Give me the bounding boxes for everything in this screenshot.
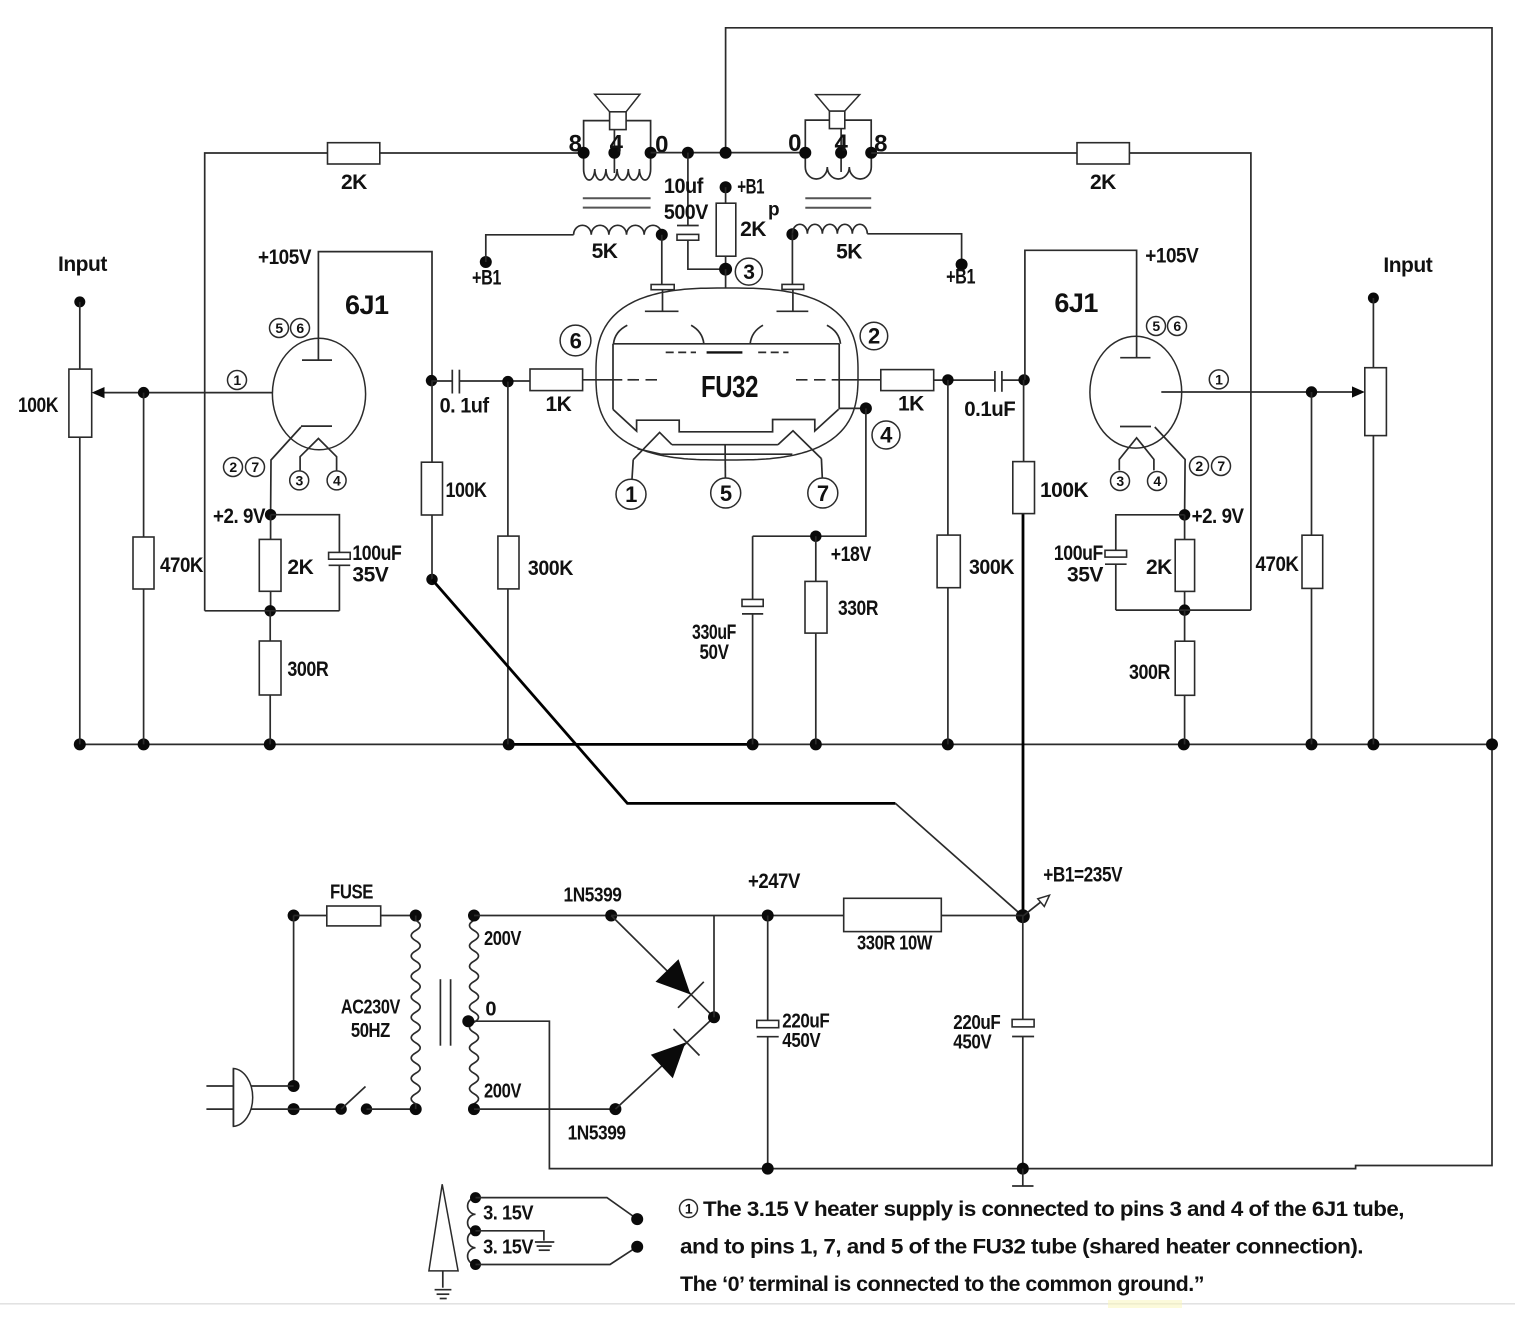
svg-text:3: 3 — [296, 472, 304, 488]
wire 100uF bottom lead left — [338, 565, 340, 611]
capacitor 220uF 450V first top plate — [757, 1020, 779, 1027]
node pot wiper arrowhead right — [1352, 386, 1365, 397]
svg-text:5: 5 — [275, 320, 283, 336]
node plug prong dot lower — [288, 1103, 300, 1115]
node rectifier output junction dot — [708, 1011, 720, 1023]
plug body — [233, 1069, 252, 1127]
resistor 300K right body — [937, 535, 960, 588]
tube FU32 heater line — [638, 449, 793, 454]
svg-text:1K: 1K — [898, 393, 924, 416]
tube 6J1 right envelope — [1090, 336, 1182, 448]
switch pole dot left — [335, 1103, 346, 1114]
svg-text:1N5399: 1N5399 — [564, 885, 622, 907]
diode D1 cathode bar — [678, 982, 704, 1008]
wire grid stub left unit — [583, 379, 623, 381]
svg-text:7: 7 — [251, 459, 259, 475]
wire main ground rail thick middle segment — [509, 743, 753, 746]
svg-text:+B1: +B1 — [472, 267, 502, 290]
diode D2 triangle — [651, 1043, 686, 1079]
capacitor 100uF 35V right bottom plate — [1105, 563, 1127, 565]
svg-text:100K: 100K — [1040, 479, 1089, 502]
wire 100K plate-load top lead right — [1023, 380, 1025, 462]
svg-text:2: 2 — [868, 324, 880, 349]
wire 100uF bottom lead right — [1115, 564, 1117, 610]
node primary bottom dot — [410, 1103, 422, 1115]
wire neutral to switch — [294, 1108, 342, 1110]
pin label 2 left 6J1 — [224, 458, 243, 477]
node 330R top junction dot — [810, 531, 821, 542]
tube FU32 right unit plate arc right — [827, 325, 841, 344]
capacitor 330uF 50V top plate — [742, 599, 763, 606]
resistor 2K cathode right body — [1175, 540, 1194, 592]
capacitor 10uf 500V bottom plate — [677, 234, 699, 240]
svg-text:4: 4 — [834, 130, 848, 157]
node diode1 anode dot — [605, 910, 617, 922]
node heater terminal bottom dot — [631, 1241, 643, 1253]
wire 300R top lead left — [269, 611, 271, 641]
capacitor 10uf 500V top plate — [677, 225, 699, 227]
wire 2K bottom to junction left — [270, 591, 272, 611]
wire 5K junction down to plate cap right — [791, 234, 793, 284]
node beam plate junction dot — [860, 402, 872, 414]
diode D1 triangle — [656, 959, 691, 994]
transformer mains core lines — [440, 979, 450, 1045]
node diode2 anode dot — [609, 1103, 621, 1115]
wire left feedback vertical — [205, 153, 328, 611]
wire 470K bottom lead — [143, 589, 145, 744]
svg-text:The 3.15 V heater supply is co: The 3.15 V heater supply is connected to… — [703, 1198, 1404, 1221]
svg-text:+2. 9V: +2. 9V — [1192, 505, 1244, 528]
resistor 2K feedback right body — [1077, 143, 1129, 164]
resistor 300R right body — [1175, 641, 1194, 695]
svg-text:3. 15V: 3. 15V — [483, 1236, 534, 1258]
wire 100K plate-load top lead left — [431, 381, 433, 463]
node tap 0 dot left — [645, 147, 657, 159]
wire 300R top lead right — [1184, 610, 1186, 641]
wire input to pot right — [1372, 298, 1374, 368]
pin label 7 right 6J1 — [1212, 457, 1231, 476]
wire B+ feed thin diagonal to node — [895, 803, 1022, 916]
svg-text:200V: 200V — [484, 1081, 522, 1103]
pin label 1 left 6J1 — [228, 371, 247, 390]
inductor heater winding 3.15V — [468, 1198, 476, 1265]
svg-text:3. 15V: 3. 15V — [483, 1203, 534, 1225]
capacitor 100uF 35V left top plate — [329, 552, 351, 559]
tube FU32 cathode line — [672, 444, 778, 446]
switch pole dot right — [361, 1103, 372, 1114]
svg-text:FUSE: FUSE — [330, 882, 373, 904]
node 5K to plate cap junction dot left — [656, 229, 668, 241]
fuse body — [327, 906, 381, 926]
node +B1 dot right 5K — [956, 259, 968, 271]
plug body flat side — [232, 1069, 234, 1127]
svg-text:2K: 2K — [1090, 171, 1116, 194]
wire 220uF second top lead — [1022, 916, 1024, 1019]
wire 330R bottom lead — [815, 633, 817, 744]
svg-text:+105V: +105V — [1145, 245, 1198, 268]
svg-text:p: p — [768, 200, 779, 221]
transformer left core lines — [583, 198, 651, 207]
wire +2.9V to 100uF top right — [1116, 515, 1185, 551]
svg-text:6J1: 6J1 — [1054, 288, 1098, 318]
pin label 2 right 6J1 — [1190, 457, 1209, 476]
tube FU32 right plate bar — [777, 310, 809, 312]
pin label 2 FU32 — [860, 322, 888, 350]
inductor 5K secondary right — [792, 224, 867, 234]
node +247V dot — [762, 910, 774, 922]
wire 470K bottom lead right — [1311, 588, 1313, 744]
svg-text:300K: 300K — [969, 556, 1014, 579]
note circled 1 — [680, 1200, 698, 1218]
node 1K/300K junction dot right — [942, 374, 953, 385]
wire node3 down into FU32 screen — [725, 269, 727, 352]
node +2.9V left dot — [265, 509, 276, 520]
wire triangle to ground — [442, 1271, 444, 1288]
node ground rail junction dots — [74, 738, 1498, 750]
diode D1 1N5399 line — [611, 916, 714, 1018]
tube FU32 screen dashes right — [758, 351, 788, 353]
node +B1 open arrowhead — [1038, 895, 1050, 906]
wire pin1 lead — [632, 460, 633, 480]
inductor HV secondary winding — [470, 916, 479, 1110]
wire rail tap0-left to tap0-right — [651, 152, 806, 154]
node 2K/100uF bottom junction dot left — [265, 605, 276, 616]
speaker right voice-coil square — [829, 111, 844, 129]
svg-text:and to pins 1, 7, and 5 of the: and to pins 1, 7, and 5 of the FU32 tube… — [680, 1236, 1363, 1259]
wire +247V bus — [611, 915, 844, 917]
svg-text:0: 0 — [788, 130, 801, 157]
svg-text:8: 8 — [569, 130, 582, 157]
tube FU32 screen box left side — [612, 344, 614, 410]
svg-text:3: 3 — [743, 261, 754, 284]
node tap 8 dot right — [865, 147, 877, 159]
svg-text:+B1: +B1 — [946, 265, 976, 288]
tube 6J1 right plate bar — [1120, 357, 1150, 359]
svg-text:0.1uF: 0.1uF — [964, 398, 1016, 421]
wire thick B+ feed diagonal — [432, 579, 895, 803]
ground symbol below triangle — [435, 1290, 452, 1299]
inductor mains primary winding — [411, 916, 420, 1110]
pin label 1 right 6J1 — [1209, 370, 1228, 389]
pin label 3 FU32 — [735, 258, 762, 285]
node tap 8 dot left — [578, 147, 590, 159]
svg-text:The ‘0’ terminal is connected: The ‘0’ terminal is connected to the com… — [680, 1273, 1204, 1296]
svg-text:+18V: +18V — [831, 543, 871, 566]
node secondary top dot — [468, 910, 480, 922]
inductor left output primary winding — [584, 153, 651, 180]
svg-text:+247V: +247V — [748, 870, 800, 893]
wire tap4 stub left — [613, 130, 615, 153]
svg-text:470K: 470K — [1256, 553, 1299, 576]
tube FU32 screen line — [613, 343, 839, 345]
node 3 junction dot — [719, 263, 732, 276]
svg-text:2K: 2K — [341, 171, 367, 194]
svg-text:6: 6 — [1173, 318, 1181, 334]
svg-text:1: 1 — [625, 482, 637, 507]
resistor 1K right body — [881, 370, 934, 391]
resistor 300R left body — [259, 641, 281, 695]
svg-text:4: 4 — [1153, 473, 1161, 489]
pin label 3 left 6J1 — [290, 471, 309, 490]
tube FU32 screen dashes left — [666, 351, 696, 353]
wire 330R top lead — [815, 536, 817, 581]
wire +B1 arrow stem — [1023, 902, 1041, 916]
wire mains live down — [293, 916, 295, 1087]
tube FU32 grid dashes right — [796, 379, 829, 381]
wire 470K top lead right — [1311, 392, 1313, 535]
svg-text:450V: 450V — [782, 1030, 821, 1052]
node +B1 dot left 5K — [480, 256, 492, 268]
tube FU32 grid dashes left — [628, 379, 661, 381]
svg-text:35V: 35V — [1067, 564, 1103, 587]
svg-text:3: 3 — [1116, 473, 1124, 489]
tube FU32 right cathode peak — [778, 431, 822, 459]
svg-text:50HZ: 50HZ — [351, 1020, 390, 1042]
pin label 3 right 6J1 — [1111, 472, 1130, 491]
capacitor 220uF 450V first bottom plate — [757, 1036, 779, 1038]
capacitor 100uF 35V right top plate — [1105, 550, 1127, 557]
wire cathode bottom bus right — [1116, 609, 1251, 611]
wire 2K bottom to junction right — [1184, 591, 1186, 610]
node tap 0 dot right — [799, 147, 811, 159]
node plug prong dot upper — [288, 1080, 300, 1092]
tube 6J1 left envelope — [272, 338, 365, 450]
resistor 2K screen body — [716, 203, 736, 256]
wire 300R bottom lead left — [269, 695, 271, 744]
wire main ground rail left part — [80, 743, 509, 745]
node 10uf junction dot — [682, 147, 694, 159]
node junction wiper/470K — [138, 387, 149, 398]
node left coupling junction dot — [426, 375, 437, 386]
node pot wiper arrowhead — [92, 387, 105, 398]
node secondary bottom dot — [468, 1103, 480, 1115]
node 2K/100uF bottom junction dot right — [1179, 604, 1190, 615]
svg-text:4: 4 — [333, 472, 341, 488]
svg-text:50V: 50V — [700, 641, 729, 664]
antenna-like triangle symbol — [429, 1184, 458, 1271]
svg-text:200V: 200V — [484, 928, 522, 950]
svg-text:300R: 300R — [287, 658, 328, 681]
node 100K bottom dot left — [426, 574, 437, 585]
wire thick B+ vertical right — [1022, 514, 1025, 917]
svg-text:5K: 5K — [836, 240, 862, 263]
node secondary center tap dot — [462, 1015, 474, 1027]
tube FU32 screen tap bar — [707, 351, 743, 353]
tube 6J1 left plate bar — [302, 359, 332, 361]
wire heater bottom to terminal — [476, 1247, 638, 1265]
node 220uF second ground dot — [1017, 1163, 1029, 1175]
wire 2K cathode resistor top lead left — [270, 515, 272, 540]
resistor 2K feedback left body — [328, 143, 380, 164]
svg-text:300K: 300K — [528, 557, 573, 580]
wire 470K top lead — [143, 393, 145, 537]
tube FU32 left plate bar — [645, 310, 679, 312]
node right coupling junction dot — [1018, 374, 1029, 385]
wire grid line right 6J1 to pot — [1161, 391, 1353, 393]
pin label 5 FU32 — [711, 478, 741, 508]
faint yellow smudge — [1108, 1300, 1182, 1308]
svg-text:0. 1uf: 0. 1uf — [440, 395, 490, 418]
wire 6J1 right cathode lead to +2.9V node — [1155, 427, 1185, 515]
svg-text:+B1=235V: +B1=235V — [1043, 864, 1122, 887]
wire 330R10W to +B1 node — [941, 915, 1023, 917]
speaker right horn — [816, 95, 860, 111]
wire right feedback vertical — [1129, 153, 1251, 610]
wire 2K cathode resistor top lead right — [1184, 515, 1186, 540]
wire 1K right to junction — [934, 379, 995, 381]
wire 220uF first bottom lead — [767, 1037, 769, 1169]
speaker left horn — [595, 94, 640, 112]
svg-text:1N5399: 1N5399 — [568, 1123, 626, 1145]
wire grid line from pot wiper to left 6J1 — [103, 392, 295, 394]
svg-text:+2. 9V: +2. 9V — [213, 505, 265, 528]
tube FU32 right plate top cap — [782, 284, 804, 289]
resistor 100K plate-load left body — [421, 462, 442, 515]
pin label 7 left 6J1 — [246, 458, 265, 477]
node primary top dot — [410, 910, 422, 922]
pin label 7 FU32 — [808, 478, 838, 508]
svg-text:0: 0 — [485, 999, 496, 1021]
wire 0.1uF to coupling junction right — [1002, 379, 1024, 381]
wire 100K bottom lead left — [431, 515, 433, 579]
svg-text:2: 2 — [1195, 458, 1203, 474]
wire to fuse — [294, 915, 327, 917]
resistor 330R 10W body — [844, 898, 942, 931]
diode D2 cathode bar — [674, 1029, 700, 1056]
svg-text:6J1: 6J1 — [345, 290, 389, 320]
capacitor 0.1uf left plates — [452, 370, 459, 394]
wire main ground rail right part — [753, 743, 1492, 745]
wire 2K feedback to transformer tap8 left — [380, 152, 584, 154]
wire secondary top to diode1 — [474, 915, 611, 917]
svg-text:500V: 500V — [664, 201, 708, 224]
resistor 470K right body — [1302, 535, 1323, 588]
speaker left voice-coil square — [610, 112, 627, 130]
node +2.9V right dot — [1179, 509, 1190, 520]
svg-text:+105V: +105V — [258, 246, 311, 269]
capacitor 330uF 50V bottom plate — [742, 613, 763, 615]
inductor right output primary winding — [805, 153, 871, 179]
tube FU32 screen box right side — [838, 344, 840, 410]
wire rectifier output up to +247V line — [713, 916, 715, 1018]
wire 2K feedback to transformer tap8 right — [871, 152, 1077, 154]
svg-text:4: 4 — [610, 130, 624, 157]
pin label 5 right 6J1 — [1147, 317, 1166, 336]
wire fuse to primary — [381, 915, 416, 917]
wire pin2/7 beam node down to +18V corner — [753, 408, 866, 536]
wire +2.9V to 100uF top left — [271, 515, 340, 553]
resistor 1K left body — [530, 369, 583, 391]
svg-text:7: 7 — [1217, 458, 1225, 474]
wire secondary bottom to diode2 — [474, 1108, 615, 1110]
node top-loop junction dot — [720, 147, 732, 159]
tube FU32 left cathode peak — [633, 432, 672, 459]
node fuse left dot — [288, 910, 300, 922]
wire 330uF bottom lead — [752, 614, 754, 745]
pin label 6 right 6J1 — [1168, 317, 1187, 336]
svg-text:2K: 2K — [740, 218, 766, 241]
wire 6J1 left cathode lead to +2.9V node — [271, 427, 301, 515]
wire pin5 lead — [724, 445, 726, 478]
tube 6J1 right cathode bar — [1120, 426, 1151, 428]
switch lever — [341, 1087, 365, 1110]
tube FU32 left unit plate arc right — [691, 325, 704, 343]
transformer left output frame — [584, 121, 651, 153]
wire to 0.1uf left plate — [432, 380, 453, 382]
tube FU32 left plate stem — [662, 290, 664, 312]
tube FU32 beam plate structure — [613, 409, 839, 431]
tube 6J1 left heater V — [300, 439, 337, 471]
ground symbol heater center tap — [535, 1242, 554, 1250]
svg-text:100K: 100K — [446, 479, 487, 502]
diode D2 1N5399 line — [615, 1017, 714, 1109]
tube FU32 right unit plate arc left — [750, 325, 763, 343]
wire 330uF top lead — [752, 536, 754, 599]
node 5K to plate cap junction dot right — [786, 228, 798, 240]
wire pot bottom to ground right — [1372, 436, 1374, 745]
wire 300K bottom lead left — [507, 589, 509, 745]
svg-text:2: 2 — [229, 459, 237, 475]
wire cathode bottom bus left — [205, 610, 340, 612]
resistor 2K cathode left body — [259, 539, 281, 591]
node tap 4 dot left — [608, 147, 620, 159]
tube 6J1 left cathode bar — [301, 425, 332, 427]
pin label 4 right 6J1 — [1148, 472, 1167, 491]
wire 220uF second bottom lead — [1022, 1037, 1024, 1169]
capacitor 0.1uF right plates — [995, 371, 1002, 392]
capacitor 220uF 450V second top plate — [1012, 1019, 1034, 1027]
node heater winding bottom dot — [470, 1259, 481, 1270]
wire pot bottom to ground — [79, 437, 81, 744]
wire 300K top lead right — [947, 380, 949, 535]
faint separator line — [0, 1303, 1515, 1305]
svg-text:AC230V: AC230V — [341, 997, 401, 1019]
tube 6J1 right heater V — [1119, 438, 1154, 471]
wire 300K top lead left — [507, 382, 509, 536]
node right input terminal dot — [1368, 293, 1379, 304]
svg-text:1: 1 — [233, 372, 241, 388]
svg-text:470K: 470K — [160, 554, 203, 577]
node heater terminal top dot — [631, 1213, 643, 1225]
svg-text:2K: 2K — [287, 556, 313, 579]
potentiometer 100K left body — [69, 369, 92, 437]
wire +B1 to 2K screen resistor — [725, 187, 727, 203]
transformer right core lines — [805, 198, 871, 208]
wire right edge down to bottom ground — [467, 744, 1492, 1168]
wire 2K screen bottom to node3 — [725, 256, 727, 269]
svg-text:2K: 2K — [1146, 556, 1172, 579]
wire 220uF first top lead — [767, 916, 769, 1021]
svg-text:0: 0 — [655, 132, 668, 159]
pin label 1 FU32 — [616, 479, 646, 509]
wire heater top to terminal — [476, 1198, 638, 1220]
tube FU32 envelope — [596, 288, 858, 460]
svg-text:5: 5 — [720, 481, 732, 506]
capacitor 220uF 450V second bottom plate — [1012, 1036, 1034, 1038]
svg-text:100uF: 100uF — [352, 542, 402, 565]
svg-text:1K: 1K — [546, 393, 572, 416]
node 1K/300K junction dot left — [502, 376, 513, 387]
capacitor 100uF 35V left bottom plate — [329, 564, 351, 566]
wire 5K junction down to plate cap left — [661, 235, 663, 285]
svg-text:7: 7 — [817, 481, 829, 506]
node tap 4 dot right — [835, 147, 847, 159]
svg-text:330R 10W: 330R 10W — [857, 933, 933, 955]
potentiometer 100K right body — [1365, 368, 1387, 436]
svg-text:5K: 5K — [592, 240, 618, 263]
svg-text:330R: 330R — [838, 597, 878, 620]
resistor 470K left body — [133, 537, 154, 589]
